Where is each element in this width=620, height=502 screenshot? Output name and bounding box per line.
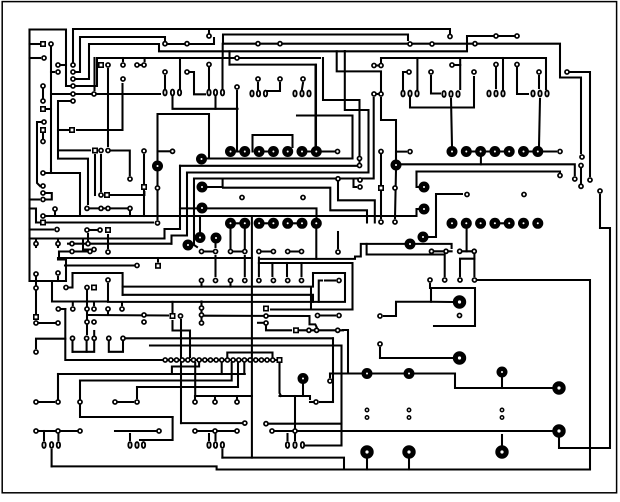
pad P139: [235, 400, 239, 404]
pad P114: [199, 321, 203, 325]
wire P132-P133: [39, 401, 54, 403]
pad rowR-16: [254, 358, 258, 362]
pad P155: [558, 173, 562, 177]
pad P22: [256, 42, 260, 46]
wire P41 link: [455, 64, 460, 66]
wire rowB link2: [259, 222, 274, 224]
via rowB-3: [268, 218, 279, 229]
wire y358 right: [380, 357, 452, 359]
wire y251 left: [59, 250, 87, 252]
oval g9-2: [57, 442, 60, 448]
square pad S2: [41, 107, 45, 111]
wire P78 stub: [30, 198, 40, 200]
wire y166 bus: [180, 165, 360, 167]
wire y164 bus: [400, 164, 575, 175]
wire P38 stem: [236, 91, 238, 152]
wire y256 bus: [260, 244, 445, 276]
wire rowB link3: [288, 222, 302, 224]
pin pad 2a: [407, 408, 410, 411]
oval g9-1: [50, 442, 53, 448]
wire y265 bus: [65, 264, 134, 266]
square pad S7: [106, 228, 110, 232]
via rowB-4: [282, 218, 293, 229]
wire P137 stem: [194, 396, 196, 399]
wire P7-P8: [42, 89, 44, 98]
wire g2 stem: [214, 97, 216, 109]
pad P140: [34, 429, 38, 433]
wire y216 long: [43, 209, 419, 216]
wire B4 stem: [109, 342, 123, 352]
pad P65: [240, 195, 244, 199]
oval g8-2: [545, 91, 548, 97]
wire rowB s6: [315, 229, 317, 259]
wire g11 s2: [214, 434, 216, 440]
via rowC-4: [504, 146, 515, 157]
wire y243 long: [68, 243, 172, 245]
wire sect2-border: [30, 280, 67, 282]
pad P129: [378, 342, 382, 346]
oval g1-1: [171, 90, 174, 96]
pad rowR-4: [186, 358, 190, 362]
pad P141: [56, 429, 60, 433]
pad P84: [106, 250, 110, 254]
via rowD-0: [447, 218, 458, 229]
wire y424: [181, 422, 241, 424]
square pad S18: [294, 328, 298, 332]
pad col1: [71, 63, 75, 67]
via V19: [552, 424, 565, 437]
wire P35 stem: [257, 83, 259, 89]
wire y338 bus: [126, 337, 333, 339]
via rowB-5: [297, 218, 308, 229]
pad rowQ-1: [213, 278, 217, 282]
wire y387 s: [237, 363, 239, 387]
pad rowR-5: [191, 358, 195, 362]
wire y457 bus: [222, 458, 344, 470]
pad U2: [379, 63, 383, 67]
wire P119-P120: [321, 314, 335, 316]
pad P70: [379, 149, 383, 153]
pad P21: [185, 42, 189, 46]
via rowA-2: [254, 146, 265, 157]
square pad S4: [99, 63, 103, 67]
wire P39 L: [403, 72, 406, 89]
wire x252 long: [251, 216, 253, 458]
wire rect top: [478, 280, 590, 469]
wire y158 bus: [206, 157, 353, 159]
wire rowR jog: [172, 363, 199, 374]
pad P67: [429, 249, 433, 253]
wire y238 drop: [83, 239, 90, 250]
wire y34 bus: [223, 35, 408, 44]
wire V1 pad-link: [158, 150, 170, 152]
wire g6 drop: [451, 99, 452, 146]
wire P16 v: [107, 69, 109, 146]
pad P44: [515, 62, 519, 66]
wire P128 up: [460, 259, 474, 276]
wire B1 stem: [71, 342, 73, 352]
via rowA-0: [225, 146, 236, 157]
wire rowR bus: [162, 359, 276, 361]
pad P5: [56, 63, 60, 67]
wire V7 stem: [214, 242, 216, 247]
wire P117 L: [266, 327, 291, 331]
via V3: [197, 182, 208, 193]
wire P56 stub: [354, 179, 357, 188]
wire P20b stem: [208, 30, 210, 33]
pad P123: [34, 350, 38, 354]
pad P82: [85, 228, 89, 232]
wire x65 drop: [65, 309, 162, 360]
pad P7: [41, 84, 45, 88]
wire y301 bus: [108, 301, 313, 303]
wire E1: [338, 182, 375, 223]
pad P128: [458, 278, 462, 282]
pad P88: [64, 285, 68, 289]
pad P48: [170, 149, 174, 153]
wire P13 stub: [122, 58, 124, 61]
wire cbox drop: [337, 51, 381, 90]
wire S1-P3 v: [50, 47, 52, 173]
wire via-link: [431, 301, 453, 303]
pad P94: [56, 321, 60, 325]
wire rowB s2: [244, 229, 246, 249]
pad P134: [78, 400, 82, 404]
pad B1: [70, 336, 74, 340]
wire bus-B: [73, 29, 450, 62]
pad P74: [56, 271, 60, 275]
wire y107 right: [410, 77, 474, 108]
wire E2: [223, 188, 367, 223]
wire x395 col: [395, 170, 396, 218]
pad P90: [337, 278, 341, 282]
oval g4-2: [307, 91, 310, 97]
pad P81: [56, 242, 60, 246]
pad P60: [335, 149, 339, 153]
pad P51: [357, 156, 361, 160]
pad rowP-4: [257, 249, 261, 253]
pad rowR-15: [248, 358, 252, 362]
pad rowR-2: [174, 358, 178, 362]
wire rowC drop: [480, 156, 482, 164]
via rowA-1: [239, 146, 250, 157]
oval g1-2: [178, 90, 181, 96]
wire P6 stub: [51, 71, 54, 73]
pad P62: [573, 177, 577, 181]
oval g11-0: [207, 442, 210, 448]
wire y263 line: [259, 263, 353, 310]
wire x201 col: [200, 302, 202, 321]
via V12: [391, 160, 402, 171]
pad P133: [56, 400, 60, 404]
wire P40 L: [431, 76, 440, 94]
oval g3-0: [250, 91, 253, 97]
wire g9 s3: [51, 450, 53, 466]
wire y173-x50: [50, 169, 52, 173]
pad P117: [264, 321, 268, 325]
wire P11-x58: [58, 101, 88, 204]
wire y251 pr1: [432, 250, 452, 252]
via rowB-1: [239, 218, 250, 229]
pad B2: [85, 336, 89, 340]
pad P17: [42, 120, 46, 124]
pad P111: [178, 314, 182, 318]
pad rowP-3: [243, 249, 247, 253]
pad P105: [128, 177, 132, 181]
via rowA-3: [268, 146, 279, 157]
pad P119: [315, 313, 319, 317]
oval g9-0: [42, 442, 45, 448]
pad P93: [34, 321, 38, 325]
pad N5: [85, 320, 89, 324]
pad P62c: [579, 184, 583, 188]
wire g12 s2: [294, 434, 296, 440]
pad P37: [301, 77, 305, 81]
pad P157: [207, 62, 211, 66]
pad rowP-7: [299, 249, 303, 253]
wire spiral: [319, 273, 345, 302]
wire V4 link: [180, 207, 197, 209]
wire sq-left: [58, 129, 68, 131]
wire y440 box: [140, 417, 173, 440]
pad P120: [337, 313, 341, 317]
pad P3: [49, 42, 53, 46]
wire left-border: [28, 30, 30, 282]
via rowA-5: [297, 146, 308, 157]
wire y251-y258: [58, 252, 60, 259]
wire x341 drop: [340, 346, 342, 446]
via V22: [402, 445, 415, 458]
wire P111 drop: [180, 320, 182, 423]
pad N7: [71, 307, 75, 311]
wire bus-A: [30, 30, 71, 87]
wire y171-via: [417, 172, 420, 188]
wire bus-D: [73, 36, 493, 79]
wire y166 stair: [165, 166, 181, 239]
wire rowB link1: [231, 222, 245, 224]
pad P33: [163, 70, 167, 74]
pad P15: [142, 63, 146, 67]
wire y172 bus: [187, 51, 369, 173]
via rowB-2: [254, 218, 265, 229]
wire sq107 link: [110, 192, 144, 195]
oval g12-2: [301, 442, 304, 448]
wire x381 col: [380, 155, 382, 218]
wire P110 up: [337, 232, 339, 248]
pad N6: [92, 320, 96, 324]
square pad S6: [379, 186, 383, 190]
wire x334 drop: [332, 338, 334, 402]
wire y431 right: [272, 430, 553, 432]
oval g5-2: [415, 91, 418, 97]
via V2: [196, 154, 207, 165]
wire y294 bus: [123, 295, 319, 302]
wire S7 stem: [107, 235, 109, 248]
wire V10 link: [428, 194, 462, 237]
pad P62b: [579, 163, 583, 167]
square pad S10: [142, 185, 146, 189]
wire y178 bus: [194, 98, 374, 179]
pad P122: [336, 328, 340, 332]
pad col2: [71, 70, 75, 74]
wire y243 stem1: [35, 240, 37, 247]
wire P15 stub: [144, 58, 146, 61]
oval g3-2: [264, 91, 267, 97]
wire y466 bus: [52, 466, 590, 469]
pad P69b: [458, 249, 462, 253]
pad P18: [41, 184, 45, 188]
pad P40: [429, 70, 433, 74]
wire P46 L: [381, 98, 396, 160]
pad P38: [235, 85, 239, 89]
wire y345 bus: [150, 344, 342, 346]
wire y431 left: [36, 430, 80, 432]
pad P110: [336, 250, 340, 254]
wire x223 step: [222, 44, 224, 58]
oval g8-1: [538, 91, 541, 97]
pad P69: [472, 249, 476, 253]
via V7: [211, 233, 222, 244]
wire P28-right: [570, 72, 590, 176]
wire y263 d2: [286, 263, 288, 276]
wire rQ s2: [244, 256, 246, 276]
pad P126: [428, 278, 432, 282]
wire x180 T: [179, 58, 181, 89]
wire x341 to-y374: [340, 372, 342, 375]
wire y263 drop0: [258, 258, 260, 276]
pad P143: [157, 429, 161, 433]
pad P76: [55, 227, 59, 231]
pad P156: [443, 278, 447, 282]
oval g6-2: [456, 91, 459, 97]
wire P91-P92: [35, 277, 37, 285]
pad P144: [243, 421, 247, 425]
wire y273 seg2: [313, 272, 345, 274]
wire P45 stem: [538, 76, 540, 88]
wire rowB s1: [229, 229, 231, 249]
pad P34: [185, 70, 189, 74]
pad col4: [71, 84, 75, 88]
wire S5-P19: [42, 134, 44, 138]
wire U2 stem: [380, 60, 382, 63]
wire P135-P136: [118, 401, 133, 403]
wire y273 bus: [73, 273, 123, 295]
pad P106: [85, 206, 89, 210]
pad P152: [293, 429, 297, 433]
via V18: [497, 367, 508, 378]
square pad S15: [277, 358, 281, 362]
pad P154: [408, 150, 412, 154]
pad P153: [328, 379, 332, 383]
pad P25: [430, 42, 434, 46]
wire y373 bus: [330, 374, 552, 389]
pad P24: [408, 42, 412, 46]
wire x66 up: [65, 260, 67, 282]
pad P12: [121, 77, 125, 81]
wire pads372: [374, 93, 381, 95]
pad P100: [142, 320, 146, 324]
square pad S11: [105, 193, 109, 197]
wire V20 stem: [501, 435, 503, 447]
wire g9 s1: [43, 431, 45, 440]
wire y222 long: [36, 221, 153, 223]
via V11: [405, 239, 416, 250]
pad col3: [71, 77, 75, 81]
wire rowC link1: [467, 150, 510, 152]
pin pad 1a: [365, 408, 368, 411]
pad N2: [92, 307, 96, 311]
wire P74 stem: [57, 277, 59, 281]
wire P123 L: [36, 339, 65, 348]
wire rQ s6: [229, 284, 231, 287]
via V13: [453, 295, 466, 308]
wire y58-2 drop: [502, 58, 504, 89]
wire V22 stem: [408, 457, 410, 470]
wire P4 stub: [30, 57, 41, 59]
pad P13: [121, 63, 125, 67]
via rowD-3: [489, 218, 500, 229]
pad P115: [264, 314, 268, 318]
pad P6: [56, 70, 60, 74]
pad P10: [92, 92, 96, 96]
pad P54: [86, 242, 90, 246]
pad P95: [56, 307, 60, 311]
wire S1 stub: [30, 43, 40, 45]
wire rowD link: [495, 222, 509, 224]
oval g11-1: [214, 442, 217, 448]
pad P49: [155, 186, 159, 190]
wire x144 col: [143, 155, 145, 216]
oval g7-2: [501, 91, 504, 97]
wire x295 col: [294, 396, 296, 428]
via V15: [362, 368, 373, 379]
pad P35: [256, 77, 260, 81]
wire cbox left: [228, 51, 230, 64]
pad rowR-13: [237, 358, 241, 362]
pad E1pad: [336, 177, 340, 181]
pad P9: [71, 92, 75, 96]
wire N3 stem: [107, 312, 109, 315]
pad rowR-14: [242, 358, 246, 362]
via V20: [495, 445, 508, 458]
wire y58-2: [381, 58, 546, 89]
pad P92: [34, 286, 38, 290]
pad P57: [41, 214, 45, 218]
pad N4: [120, 307, 124, 311]
wire P43 stem: [495, 68, 497, 88]
pad P78: [41, 197, 45, 201]
pin pad 3a: [500, 408, 503, 411]
pad P8: [41, 99, 45, 103]
via V21: [360, 445, 373, 458]
pad rowP-1: [213, 249, 217, 253]
pad rowR-12: [231, 358, 235, 362]
pad P107: [99, 206, 103, 210]
pad B4: [107, 336, 111, 340]
wire P115 line: [205, 316, 317, 327]
wire P150 link2: [320, 401, 333, 403]
wire S14 line: [271, 308, 353, 310]
pad rowR-11: [225, 358, 229, 362]
wire rQ s5: [200, 284, 202, 287]
wire y380 s: [231, 363, 233, 381]
wire B2 stem: [86, 342, 88, 352]
oval g5-1: [408, 91, 411, 97]
pad P52: [357, 163, 361, 167]
wire S12 left: [60, 149, 90, 151]
wire y423: [270, 423, 342, 425]
oval g11-2: [221, 442, 224, 448]
